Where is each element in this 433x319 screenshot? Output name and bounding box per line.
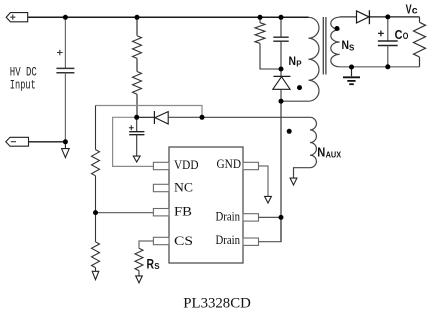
svg-text:N: N [289, 56, 297, 68]
svg-text:N: N [342, 40, 350, 52]
svg-text:C: C [395, 27, 403, 42]
svg-text:S: S [154, 262, 160, 271]
svg-text:CS: CS [174, 234, 193, 248]
svg-text:S: S [349, 44, 355, 53]
svg-text:FB: FB [174, 205, 192, 219]
svg-text:O: O [403, 31, 409, 41]
svg-text:P: P [296, 60, 302, 69]
svg-text:Input: Input [10, 78, 36, 92]
svg-text:PL3328CD: PL3328CD [183, 295, 251, 311]
svg-text:HV DC: HV DC [10, 65, 37, 79]
svg-text:NC: NC [174, 180, 193, 194]
svg-text:VDD: VDD [174, 158, 199, 172]
svg-text:N: N [317, 145, 325, 159]
svg-text:c: c [412, 5, 418, 17]
svg-text:R: R [147, 256, 155, 271]
svg-text:AUX: AUX [326, 150, 342, 159]
svg-text:GND: GND [217, 157, 242, 171]
svg-text:Drain: Drain [216, 233, 241, 247]
svg-text:Drain: Drain [216, 210, 241, 224]
